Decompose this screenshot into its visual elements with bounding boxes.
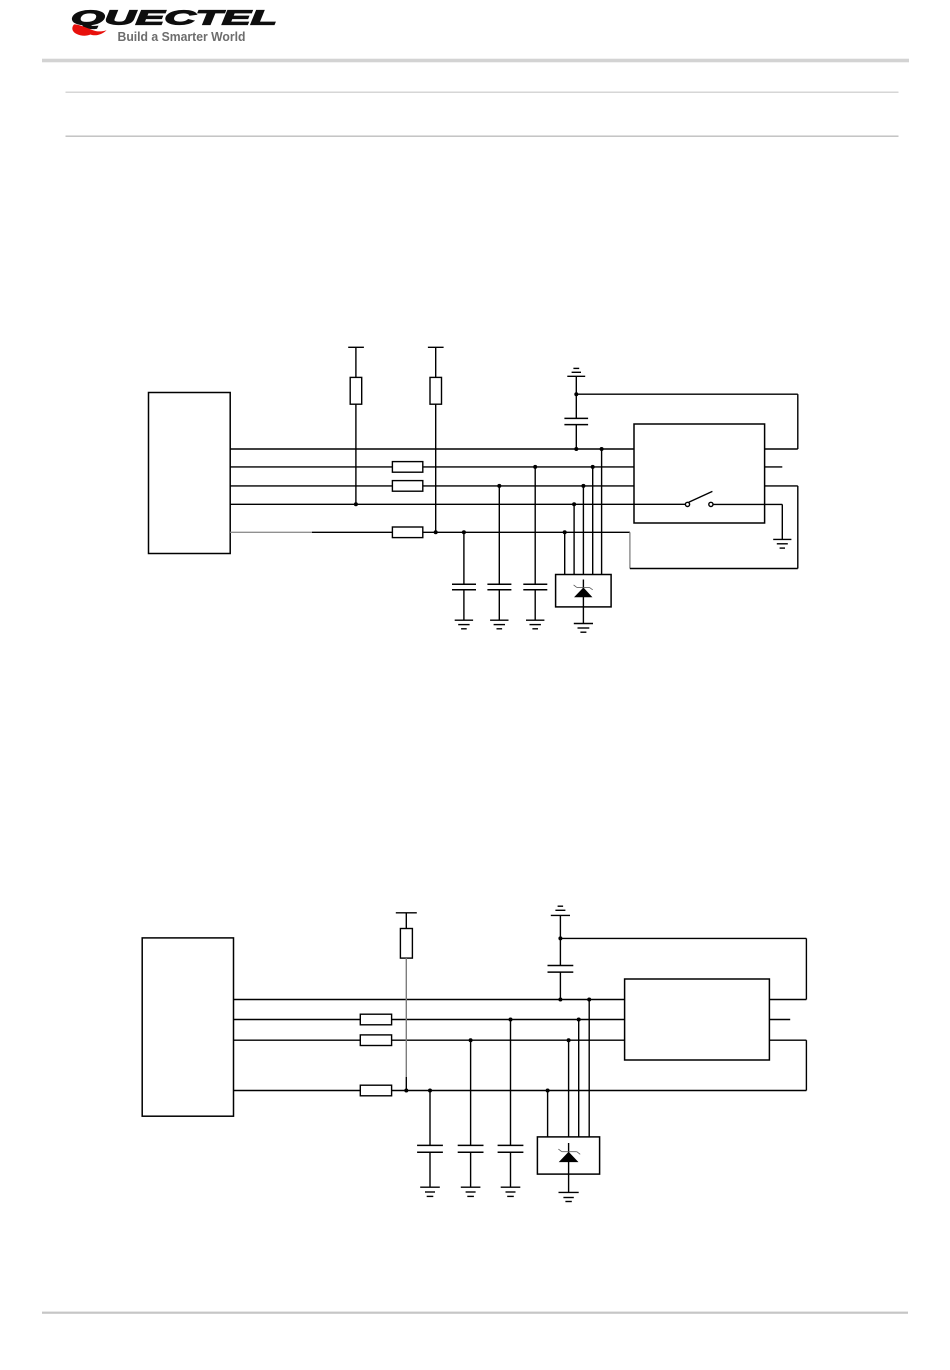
wire J2 pin A [769,999,806,1001]
node net4 junction 2 [546,1089,550,1093]
wire net5 gray segment [230,531,312,533]
wire net2 (line 2) [230,466,634,468]
resistor R5 pull-up [430,347,442,532]
wire J1 pin C [765,485,798,487]
node R5-net5 junction [434,530,438,534]
ground G11 [501,1187,521,1196]
wire top rail [576,393,798,395]
wire net4 inside J1 to switch [634,503,685,505]
wire bottom rail [630,568,798,570]
wire net1 (line 1) [230,448,634,450]
resistor R8 [360,1085,391,1096]
capacitor C7 [498,1018,524,1188]
wire right drop to pin A [797,394,799,449]
capacitor C2 [487,484,511,620]
ground G6 [490,620,508,629]
node C8-net1 junction [558,998,562,1002]
wire net5 jog gray vertical [629,532,631,568]
wire net5 (line 5) [312,531,630,533]
power rail bar VDD1 [348,346,364,348]
header thin rule 1 [66,92,899,93]
footer rule [42,1312,908,1314]
node net5 junction [563,530,567,534]
node net2 junction [591,465,595,469]
ground G7 [526,620,544,629]
module U1 box [149,393,231,554]
logo tagline [118,30,246,44]
resistor R9 pull-up [400,913,412,1091]
capacitor C5 [417,1089,443,1188]
capacitor C1 [452,530,476,620]
ground G2 [773,539,791,548]
wire top rail 2 [560,937,806,939]
module U2 box [142,938,233,1116]
wire net4 (line 4) [230,503,685,505]
capacitor C6 [458,1038,484,1187]
resistor R1 [392,462,422,473]
wire TVS feed 2-2 [568,1040,570,1137]
resistor R6 [360,1014,391,1025]
wire J1 pin A [765,448,798,450]
node net3 junction [581,484,585,488]
ground G5 [455,620,473,629]
wire pin C drop [797,486,799,569]
capacitor C4 [564,394,588,449]
wire net4 (line 4) [234,1090,807,1092]
wire right drop to pin A 2 [805,938,807,999]
wire pin C drop 2 [805,1040,807,1090]
ground G1 inverted [567,368,585,394]
wire net1 (line 1) [234,999,625,1001]
node cap top junction [574,392,578,396]
wire TVS feed 2 [573,504,575,574]
wire J2 pin B stub [769,1019,790,1021]
node R9-net4 junction [404,1089,408,1093]
ground G9 [420,1187,440,1196]
wire J1 pin B stub [765,466,783,468]
wire net3 (line 3) [230,485,634,487]
resistor R7 [360,1035,391,1046]
wire TVS feed 2-4 [588,1000,590,1137]
wire TVS feed 2-1 [547,1091,549,1137]
wire TVS feed 1 [564,532,566,574]
TVS array D2 box [537,1137,599,1174]
SIM connector J2 box [625,979,770,1060]
node C4-net1 junction [574,447,578,451]
switch SW1 [685,491,782,506]
header thin rule 2 [66,136,899,137]
TVS array D1 box [556,575,612,607]
resistor R4 pull-up [350,347,362,504]
wire TVS feed 5 [601,449,603,575]
ground G10 [461,1187,481,1196]
diode D2 symbol [558,1143,580,1192]
node net1 junction 2 [587,998,591,1002]
svg-text:QUECTEL: QUECTEL [71,8,277,30]
power rail bar VDD3 [396,912,417,914]
ground G4 inverted [551,906,570,938]
wire TVS feed 3 [582,486,584,575]
node net4 junction [572,502,576,506]
wire TVS feed 2-3 [578,1020,580,1137]
ground G3 [574,624,593,633]
wire net2 (line 2) [234,1019,625,1021]
diode D1 symbol [574,580,593,624]
resistor R2 [392,481,422,492]
SIM connector J1 box [634,424,765,523]
ground G8 [559,1192,579,1201]
resistor R3 [392,527,422,538]
node cap top junction 2 [558,936,562,940]
node R4-net4 junction [354,502,358,506]
logo red swoosh [72,24,106,35]
logo Quectel wordmark [71,8,277,30]
header thick rule [42,59,909,63]
svg-text:Build a Smarter World: Build a Smarter World [118,30,246,44]
wire switch to ground [781,504,783,539]
node net3 junction 2 [567,1038,571,1042]
node net2 junction 2 [577,1018,581,1022]
wire net3 (line 3) [234,1039,625,1041]
wire J2 pin C [769,1039,806,1041]
capacitor C3 [523,465,547,620]
wire TVS feed 4 [592,467,594,575]
power rail bar VDD2 [428,346,444,348]
capacitor C8 [548,938,574,999]
node net1 junctions [600,447,604,451]
